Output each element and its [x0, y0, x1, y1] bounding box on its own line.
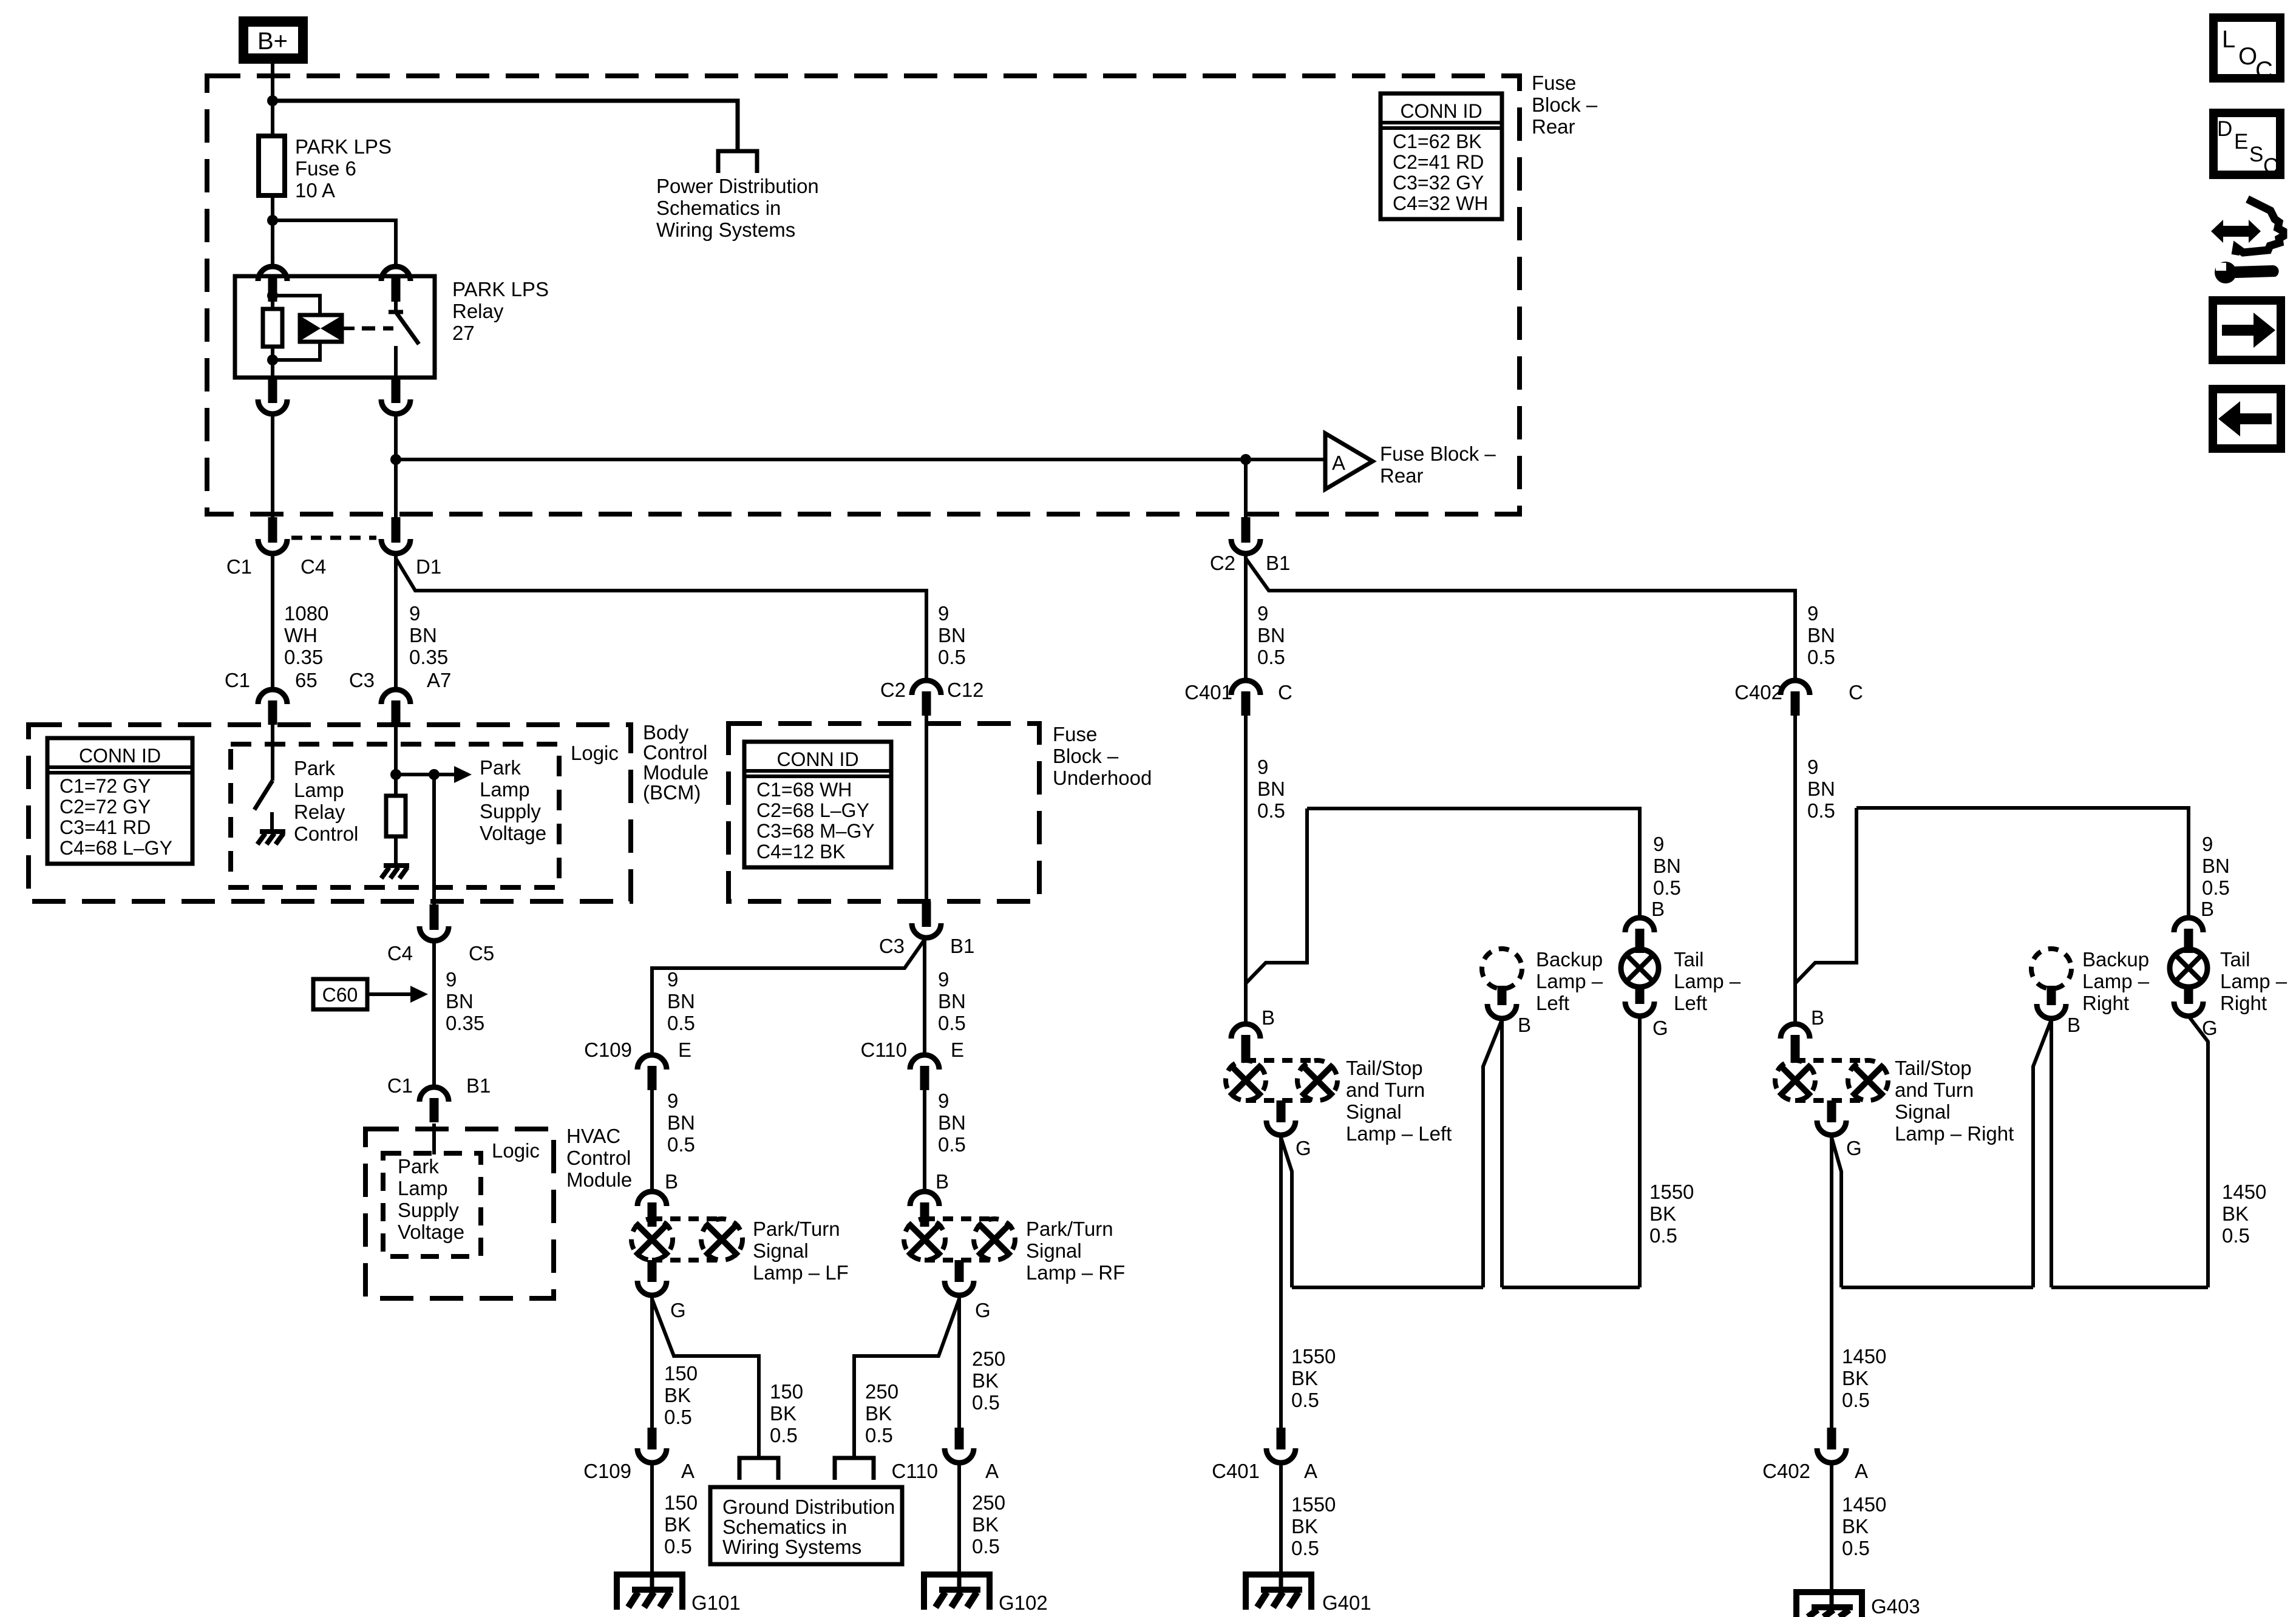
svg-text:BN: BN	[938, 990, 966, 1012]
svg-text:10 A: 10 A	[295, 179, 335, 202]
svg-text:Schematics in: Schematics in	[722, 1516, 847, 1538]
wire ground link left B	[1502, 1286, 1640, 1289]
wire relay switch fixed top	[394, 302, 398, 312]
connector C2/B1 (fuse block rear)	[1241, 517, 1251, 543]
svg-text:C109: C109	[584, 1039, 632, 1061]
svg-text:C: C	[1849, 681, 1863, 703]
svg-text:Lamp –: Lamp –	[1536, 970, 1603, 992]
resistor relay coil suppression	[263, 309, 282, 347]
svg-text:9: 9	[938, 602, 949, 625]
ground BCM switch	[260, 829, 285, 834]
svg-text:(BCM): (BCM)	[643, 781, 701, 804]
wire BCM sense feed	[394, 721, 398, 796]
svg-text:WH: WH	[284, 624, 318, 646]
wire B+ to fuse	[271, 101, 274, 136]
svg-text:0.35: 0.35	[409, 646, 448, 668]
svg-text:G: G	[670, 1299, 686, 1321]
node relay coil bottom junction	[267, 354, 278, 365]
resistor BCM pull-down	[386, 796, 406, 836]
ground G102	[924, 1575, 990, 1610]
svg-text:C110: C110	[861, 1039, 907, 1061]
wire backup-left B down	[1500, 1019, 1504, 1287]
dashed box Fuse Block - Rear	[207, 76, 1520, 514]
wire relay coil branch bottom	[273, 342, 320, 360]
svg-text:0.5: 0.5	[1291, 1537, 1319, 1559]
connector C401/A inline	[1277, 1428, 1286, 1449]
svg-text:Lamp –: Lamp –	[1674, 970, 1741, 992]
wire resistor to ground	[394, 836, 398, 864]
ground G403	[1796, 1592, 1862, 1617]
connector C109/E inline	[637, 1055, 667, 1070]
svg-text:Backup: Backup	[2082, 948, 2149, 971]
svg-text:B1: B1	[466, 1074, 491, 1097]
svg-text:0.5: 0.5	[1257, 799, 1285, 822]
svg-text:Signal: Signal	[1026, 1239, 1082, 1262]
svg-text:BK: BK	[1649, 1202, 1676, 1225]
svg-text:G102: G102	[999, 1592, 1048, 1614]
svg-text:BN: BN	[2202, 855, 2230, 877]
node switch output junction	[390, 454, 401, 465]
wire loop horizontal left	[1307, 808, 1640, 918]
lamp backup right	[2031, 949, 2071, 989]
svg-text:CONN ID: CONN ID	[1400, 100, 1482, 122]
svg-text:C4=68 L–GY: C4=68 L–GY	[59, 837, 172, 859]
svg-text:O: O	[2238, 43, 2257, 70]
svg-text:G: G	[1652, 1017, 1668, 1039]
wire tail feed loop left	[1246, 808, 1307, 983]
svg-text:BK: BK	[972, 1369, 999, 1392]
svg-text:and Turn: and Turn	[1346, 1079, 1425, 1101]
wire drop to C2-B1	[1244, 459, 1248, 517]
svg-text:27: 27	[452, 322, 475, 344]
wire TS-left ground straight	[1279, 1135, 1283, 1428]
connector C110/E inline	[910, 1055, 939, 1070]
connector D1 (fuse block rear)	[392, 517, 401, 543]
wire LF ground to bracket	[652, 1299, 759, 1457]
svg-text:Control: Control	[294, 822, 358, 845]
svg-text:A: A	[1855, 1460, 1868, 1482]
wire through underhood block	[925, 716, 928, 901]
svg-text:C4: C4	[301, 555, 326, 578]
svg-text:0.5: 0.5	[1257, 646, 1285, 668]
svg-text:Fuse 6: Fuse 6	[295, 157, 356, 180]
dashed box HVAC logic	[383, 1153, 481, 1256]
svg-text:Lamp – RF: Lamp – RF	[1026, 1261, 1125, 1284]
svg-text:A: A	[1304, 1460, 1317, 1482]
wire TS-right ground straight	[1830, 1135, 1833, 1428]
svg-text:Relay: Relay	[294, 801, 345, 823]
wire backup-right B down	[2050, 1019, 2053, 1287]
lamp tail/stop turn left	[1226, 1060, 1266, 1100]
wire to relay coil input	[271, 220, 274, 266]
node branch to C2-B1	[1240, 454, 1251, 465]
svg-text:BN: BN	[1257, 778, 1285, 800]
svg-text:BK: BK	[2222, 1202, 2249, 1225]
svg-text:1080: 1080	[284, 602, 328, 625]
dashed box BCM logic	[231, 744, 559, 887]
svg-text:B: B	[1651, 898, 1665, 920]
svg-text:BN: BN	[1807, 778, 1835, 800]
ground G101	[617, 1575, 682, 1610]
svg-text:C2: C2	[1210, 552, 1235, 574]
conn id table rear	[1381, 93, 1502, 219]
switch park lamp relay control	[254, 781, 273, 810]
svg-text:G101: G101	[691, 1592, 741, 1614]
reference box C60	[313, 979, 367, 1009]
connector B backup right	[2047, 986, 2056, 1005]
svg-text:Logic: Logic	[492, 1139, 540, 1162]
svg-text:B: B	[665, 1170, 678, 1193]
wire to G102	[957, 1463, 961, 1575]
svg-text:Wiring Systems: Wiring Systems	[656, 219, 795, 241]
svg-text:BN: BN	[938, 624, 966, 646]
svg-text:B: B	[2201, 898, 2214, 920]
wire to G401	[1279, 1463, 1283, 1575]
svg-text:B: B	[936, 1170, 949, 1193]
svg-text:Tail/Stop: Tail/Stop	[1895, 1057, 1972, 1079]
connector C110/A inline	[955, 1428, 964, 1449]
svg-text:PARK LPS: PARK LPS	[295, 135, 392, 158]
svg-text:150: 150	[664, 1362, 698, 1385]
dashed box Fuse Block - Underhood	[729, 724, 1039, 901]
svg-text:C2=68 L–GY: C2=68 L–GY	[756, 799, 869, 821]
svg-text:150: 150	[770, 1380, 803, 1403]
dashed box HVAC control module	[365, 1129, 554, 1298]
svg-text:Signal: Signal	[1895, 1100, 1951, 1123]
svg-text:A: A	[1332, 452, 1345, 474]
wire relay resistor bottom	[271, 347, 274, 360]
svg-text:Module: Module	[566, 1168, 632, 1191]
svg-text:0.5: 0.5	[667, 1133, 695, 1156]
icon back arrow box	[2213, 389, 2281, 449]
svg-text:C1=68 WH: C1=68 WH	[756, 779, 852, 801]
icon LOC box	[2213, 18, 2280, 78]
lamp tail right	[2174, 918, 2203, 932]
wire into HVAC logic	[432, 1124, 436, 1154]
svg-text:C3: C3	[879, 935, 905, 957]
wire to G101	[650, 1463, 654, 1575]
svg-text:9: 9	[667, 968, 678, 991]
connector B park/turn LF	[637, 1192, 667, 1206]
svg-text:C2: C2	[880, 679, 906, 701]
svg-text:C1=72 GY: C1=72 GY	[59, 775, 151, 797]
svg-text:BK: BK	[664, 1384, 691, 1406]
svg-text:BK: BK	[865, 1402, 892, 1425]
svg-text:0.5: 0.5	[938, 1012, 966, 1034]
svg-text:E: E	[951, 1039, 964, 1061]
svg-text:Lamp –: Lamp –	[2082, 970, 2150, 992]
svg-text:0.5: 0.5	[1842, 1537, 1870, 1559]
svg-text:BK: BK	[1842, 1515, 1869, 1537]
connector G tail/stop right	[1827, 1100, 1836, 1122]
wire loop horizontal right	[1856, 808, 2189, 918]
reference box ground distribution	[710, 1487, 902, 1564]
connector C3/B1 (underhood out)	[922, 901, 931, 927]
connector C4/C5 (BCM out)	[430, 904, 439, 930]
svg-text:Supply: Supply	[398, 1199, 459, 1221]
svg-text:L: L	[2222, 26, 2235, 53]
wire C109 to lamp B	[650, 1090, 654, 1192]
triangle reference A	[1325, 433, 1373, 489]
wire D1 branch to underhood	[396, 558, 926, 680]
bracket ground distribution right	[835, 1458, 874, 1480]
lamp park/turn signal RF	[904, 1219, 945, 1260]
svg-text:A: A	[681, 1460, 695, 1482]
wire bus to power-distribution reference	[273, 101, 738, 151]
svg-text:Fuse: Fuse	[1053, 723, 1097, 745]
svg-text:1450: 1450	[1842, 1345, 1886, 1368]
connector relay pin 86 (coil +)	[258, 266, 287, 281]
svg-text:C3=68 M–GY: C3=68 M–GY	[756, 820, 875, 842]
wire ground link right A	[1841, 1286, 2033, 1289]
svg-text:HVAC: HVAC	[566, 1125, 620, 1147]
bracket power distribution reference	[718, 151, 757, 173]
svg-text:Voltage: Voltage	[398, 1221, 464, 1243]
svg-text:0.5: 0.5	[1291, 1389, 1319, 1411]
svg-text:Rear: Rear	[1532, 115, 1575, 138]
svg-text:Fuse: Fuse	[1532, 72, 1576, 94]
wire tail-left ground	[1638, 1016, 1642, 1287]
wire relay coil top	[271, 296, 274, 309]
icon repair (double arrow, panel outline, wrench)	[2211, 220, 2261, 243]
svg-text:Control: Control	[566, 1147, 631, 1169]
connector G tail/stop left	[1277, 1100, 1286, 1122]
svg-text:0.5: 0.5	[2222, 1224, 2250, 1247]
icon DESC box	[2213, 113, 2280, 175]
dashed actuator link	[362, 327, 393, 331]
wire C3/B1 down to RF	[923, 938, 926, 1055]
svg-text:Lamp: Lamp	[398, 1177, 448, 1199]
svg-text:0.5: 0.5	[1653, 876, 1681, 899]
svg-text:BK: BK	[1842, 1367, 1869, 1389]
arrow park lamp supply voltage	[434, 773, 454, 776]
svg-text:250: 250	[865, 1380, 898, 1403]
svg-text:Lamp – Left: Lamp – Left	[1346, 1122, 1452, 1145]
wire 1080 WH 0.35	[271, 554, 274, 690]
svg-text:C401: C401	[1212, 1460, 1260, 1482]
connector relay pin 87 out	[392, 378, 401, 403]
ground G401	[1246, 1575, 1311, 1610]
svg-text:0.5: 0.5	[664, 1406, 692, 1428]
wire 9 BN 0.35 from D1	[394, 554, 398, 690]
svg-text:C3=32 GY: C3=32 GY	[1393, 172, 1484, 194]
wire RF ground to bracket	[854, 1299, 959, 1457]
svg-text:B+: B+	[257, 28, 288, 55]
svg-text:Body: Body	[643, 721, 689, 744]
connector C1 pin 65 (BCM)	[258, 690, 287, 704]
svg-text:Park: Park	[398, 1155, 439, 1178]
wire relay coil actuator stub	[342, 327, 355, 330]
svg-text:0.5: 0.5	[938, 646, 966, 668]
svg-text:C402: C402	[1762, 1460, 1810, 1482]
svg-text:Right: Right	[2220, 992, 2267, 1014]
svg-text:Signal: Signal	[753, 1239, 809, 1262]
svg-text:BN: BN	[1257, 624, 1285, 646]
svg-text:Right: Right	[2082, 992, 2129, 1014]
svg-text:65: 65	[295, 669, 318, 691]
connector G park/turn LF	[648, 1260, 657, 1282]
wire relay coil branch top	[273, 296, 320, 315]
wire to G403	[1830, 1463, 1833, 1592]
svg-text:Wiring Systems: Wiring Systems	[722, 1536, 861, 1558]
wire switch ground stub	[270, 812, 274, 830]
connector C1/B1 (HVAC)	[419, 1087, 449, 1102]
svg-text:Lamp – LF: Lamp – LF	[753, 1261, 849, 1284]
svg-text:C1=62 BK: C1=62 BK	[1393, 131, 1482, 152]
svg-text:0.5: 0.5	[972, 1535, 1000, 1558]
svg-text:C4=32 WH: C4=32 WH	[1393, 192, 1488, 214]
svg-text:B1: B1	[950, 935, 974, 957]
svg-text:B1: B1	[1266, 552, 1290, 574]
svg-text:C: C	[1278, 681, 1292, 703]
svg-text:0.35: 0.35	[446, 1012, 484, 1034]
relay coil (solenoid) symbol	[300, 315, 342, 342]
svg-text:Rear: Rear	[1380, 464, 1424, 487]
wire ground link right B	[2051, 1286, 2208, 1289]
svg-text:Park: Park	[480, 756, 521, 779]
svg-text:C110: C110	[892, 1460, 938, 1482]
svg-text:B: B	[2067, 1014, 2080, 1036]
connector B park/turn RF	[910, 1192, 939, 1206]
wire to supply voltage tap	[396, 773, 434, 776]
svg-text:Logic: Logic	[571, 742, 619, 764]
icon forward arrow box	[2213, 300, 2281, 360]
svg-text:1450: 1450	[1842, 1493, 1886, 1516]
svg-text:BN: BN	[446, 990, 474, 1012]
svg-text:Lamp: Lamp	[294, 779, 344, 801]
fuse F6 PARK LPS 10A	[259, 136, 285, 195]
node fuse output junction	[267, 215, 278, 226]
svg-text:1550: 1550	[1649, 1181, 1694, 1203]
svg-text:BK: BK	[972, 1513, 999, 1536]
svg-text:A: A	[985, 1460, 999, 1482]
connector C1 (fuse block rear) / C4 pass	[268, 517, 277, 543]
svg-text:D1: D1	[416, 555, 441, 578]
svg-text:BN: BN	[1653, 855, 1681, 877]
svg-text:9: 9	[1257, 602, 1268, 625]
svg-text:C: C	[2255, 57, 2273, 84]
svg-text:Block –: Block –	[1532, 93, 1598, 116]
connector relay pin 30 (switch in)	[381, 266, 410, 281]
wire LF ground straight	[650, 1297, 654, 1428]
svg-text:0.5: 0.5	[2202, 876, 2230, 899]
svg-text:C1: C1	[225, 669, 250, 691]
svg-text:C4: C4	[387, 942, 413, 964]
svg-text:PARK LPS: PARK LPS	[452, 278, 549, 300]
node BCM sense junction	[390, 769, 401, 780]
svg-text:C5: C5	[469, 942, 494, 964]
svg-text:0.5: 0.5	[770, 1424, 798, 1446]
svg-text:0.5: 0.5	[1649, 1224, 1677, 1247]
svg-text:0.35: 0.35	[284, 646, 323, 668]
lamp backup left	[1482, 949, 1522, 989]
svg-text:250: 250	[972, 1491, 1005, 1514]
svg-text:G: G	[1846, 1137, 1862, 1159]
svg-text:C12: C12	[947, 679, 984, 701]
svg-text:0.5: 0.5	[865, 1424, 893, 1446]
svg-text:A7: A7	[427, 669, 451, 691]
connector C2 pin C12 (underhood)	[912, 680, 941, 695]
svg-text:Lamp – Right: Lamp – Right	[1895, 1122, 2014, 1145]
svg-text:Left: Left	[1536, 992, 1569, 1014]
svg-text:B: B	[1262, 1006, 1275, 1029]
relay switch blade	[389, 312, 419, 344]
svg-text:Module: Module	[643, 761, 708, 784]
svg-text:C109: C109	[583, 1460, 631, 1482]
svg-text:9: 9	[2202, 833, 2213, 855]
svg-text:BK: BK	[1291, 1367, 1318, 1389]
svg-text:D: D	[2217, 117, 2232, 141]
svg-text:Park/Turn: Park/Turn	[1026, 1218, 1113, 1240]
connector C3 pin A7 (BCM)	[381, 690, 410, 704]
svg-text:G401: G401	[1322, 1592, 1371, 1614]
svg-text:Relay: Relay	[452, 300, 504, 322]
wire C401 down	[1244, 716, 1248, 1024]
svg-text:0.5: 0.5	[667, 1012, 695, 1034]
conn id table BCM	[47, 738, 192, 864]
svg-text:Lamp: Lamp	[480, 778, 530, 801]
svg-text:BN: BN	[938, 1111, 966, 1134]
svg-text:1450: 1450	[2222, 1181, 2266, 1203]
wire C2-B1 branch to right	[1246, 558, 1795, 680]
svg-text:0.5: 0.5	[664, 1535, 692, 1558]
dashed box Body Control Module	[29, 725, 631, 901]
wire backup-left diagonal	[1483, 1020, 1502, 1287]
connector B tail/stop right	[1781, 1024, 1810, 1039]
svg-text:Ground Distribution: Ground Distribution	[722, 1496, 895, 1518]
svg-text:BK: BK	[664, 1513, 691, 1536]
svg-text:E: E	[678, 1039, 691, 1061]
svg-text:BN: BN	[409, 624, 437, 646]
svg-text:C: C	[2263, 154, 2278, 178]
svg-text:9: 9	[938, 1090, 949, 1112]
svg-text:BN: BN	[667, 990, 695, 1012]
wire backup-right diagonal	[2033, 1020, 2051, 1287]
connector C109/A inline	[648, 1428, 657, 1449]
svg-text:C402: C402	[1734, 681, 1782, 703]
svg-text:0.5: 0.5	[1842, 1389, 1870, 1411]
svg-text:Tail/Stop: Tail/Stop	[1346, 1057, 1423, 1079]
svg-text:B: B	[1518, 1014, 1531, 1036]
svg-text:S: S	[2249, 143, 2263, 166]
svg-text:9: 9	[1653, 833, 1664, 855]
svg-text:C2=41 RD: C2=41 RD	[1393, 151, 1484, 173]
wire RF ground straight	[957, 1297, 961, 1428]
wire relay switch lower contact	[394, 346, 398, 378]
svg-text:Voltage: Voltage	[480, 822, 546, 844]
svg-text:250: 250	[972, 1347, 1005, 1370]
svg-text:150: 150	[664, 1491, 698, 1514]
wire tail feed loop right	[1795, 808, 1856, 983]
svg-text:9: 9	[1807, 756, 1818, 778]
connector G park/turn RF	[955, 1260, 964, 1282]
wire BCM output down	[432, 775, 436, 904]
svg-text:0.5: 0.5	[938, 1133, 966, 1156]
svg-text:Block –: Block –	[1053, 745, 1119, 767]
svg-text:9: 9	[1807, 602, 1818, 625]
svg-text:Fuse Block –: Fuse Block –	[1380, 442, 1496, 465]
lamp tail left	[1625, 918, 1654, 932]
bracket ground distribution left	[739, 1458, 778, 1480]
node relay coil top junction	[267, 290, 278, 301]
svg-text:Signal: Signal	[1346, 1100, 1402, 1123]
connector B tail/stop left	[1231, 1024, 1260, 1039]
svg-text:Tail: Tail	[2220, 948, 2250, 971]
svg-text:0.5: 0.5	[1807, 646, 1835, 668]
svg-text:Left: Left	[1674, 992, 1707, 1014]
wire TS-right jog	[1832, 1137, 1841, 1287]
svg-text:0.5: 0.5	[972, 1391, 1000, 1414]
